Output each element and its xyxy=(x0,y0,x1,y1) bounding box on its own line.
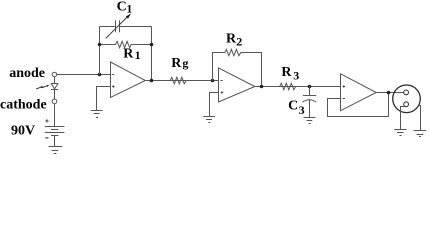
svg-text:1: 1 xyxy=(126,2,132,16)
wire (anode to op-amp U1 inverting input) xyxy=(57,74,111,76)
op-amp U3 xyxy=(341,74,377,111)
node (U1 output) xyxy=(150,79,154,83)
node (main line / feedback junction) xyxy=(98,73,102,77)
op-amp U2 xyxy=(219,68,255,102)
svg-text:C: C xyxy=(288,99,298,114)
light arrows xyxy=(36,86,47,89)
wire (connector shell to ground) xyxy=(418,106,420,131)
svg-text:1: 1 xyxy=(135,48,141,62)
resistor R1 xyxy=(100,41,152,47)
wire (feedback left vertical) xyxy=(99,27,101,75)
wire (U1 non-inverting input to ground) xyxy=(97,87,111,111)
svg-text:3: 3 xyxy=(299,103,305,117)
output connector J1 (return pin) xyxy=(404,102,409,107)
ground (connector return) xyxy=(394,130,406,136)
photodiode D1 xyxy=(51,77,58,99)
resistor R3 xyxy=(280,83,296,89)
C1 trimmer arrow xyxy=(106,16,129,39)
ground (connector shell) xyxy=(414,131,427,137)
svg-text:g: g xyxy=(182,56,188,70)
wire (feedback right vertical) xyxy=(151,27,153,81)
op-amp U1 xyxy=(111,62,146,98)
U3 minus sign xyxy=(343,98,345,100)
ground (C3) xyxy=(304,118,316,124)
wire (cathode to battery) xyxy=(54,104,56,127)
U1 plus sign xyxy=(112,85,114,87)
ground (U2) xyxy=(203,117,215,123)
battery plus sign xyxy=(45,119,48,122)
svg-text:C: C xyxy=(117,0,127,15)
svg-text:anode: anode xyxy=(9,66,45,81)
wire (return pin to ground) xyxy=(401,107,405,130)
svg-text:cathode: cathode xyxy=(0,97,47,112)
resistor R2 (feedback loop) xyxy=(213,49,262,86)
capacitor C1 (variable) xyxy=(100,20,152,32)
wire (battery to ground) xyxy=(54,136,56,147)
anode terminal xyxy=(52,72,57,77)
wire (U2 non-inverting input to ground) xyxy=(210,93,219,117)
svg-text:90V: 90V xyxy=(11,124,35,139)
U2 plus sign xyxy=(221,91,223,93)
capacitor C3 xyxy=(302,87,316,118)
U3 plus sign xyxy=(343,85,345,87)
output connector J1 (signal pin) xyxy=(404,90,409,95)
U1 minus sign xyxy=(112,74,114,76)
node (R2 tap) xyxy=(211,79,215,83)
node (U2 output) xyxy=(260,85,264,89)
svg-text:2: 2 xyxy=(236,34,242,48)
output connector J1 (body) xyxy=(393,85,421,113)
svg-text:R: R xyxy=(123,46,134,61)
wire (U3 feedback loop) xyxy=(328,93,389,117)
resistor Rg xyxy=(170,77,186,83)
ground (U1) xyxy=(91,111,103,118)
ground (battery) xyxy=(49,147,63,154)
svg-text:R: R xyxy=(281,65,292,80)
node (U3 output) xyxy=(387,91,391,95)
svg-text:3: 3 xyxy=(293,68,299,82)
node (R1 left) xyxy=(98,43,102,47)
node (C3 tap) xyxy=(308,85,312,89)
wire (U1 output to U2 inverting input) xyxy=(145,80,218,82)
wire (U3 output) xyxy=(376,92,404,94)
node (R1 right) xyxy=(150,43,154,47)
cathode terminal xyxy=(52,99,57,104)
battery minus sign xyxy=(45,137,48,139)
svg-text:R: R xyxy=(171,56,182,71)
U2 minus sign xyxy=(220,80,222,82)
battery 90V xyxy=(45,127,65,136)
wire (U2 output to U3 non-inverting input) xyxy=(255,86,341,88)
